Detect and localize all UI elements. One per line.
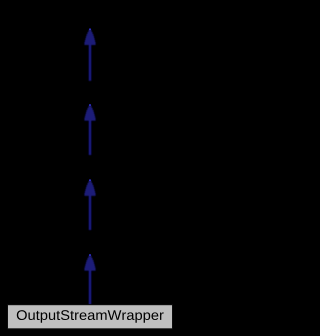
arrow 2 head (stepped): [84, 106, 95, 121]
arrow 4 bright tip: [89, 254, 91, 256]
inheritance arrow 1 (topmost): [84, 29, 95, 81]
wire: arrow 1 stem: [89, 44, 92, 81]
arrow 3 bright tip: [89, 179, 91, 181]
arrow 2 bright tip: [89, 104, 91, 106]
arrow 4 head (stepped): [84, 256, 95, 271]
inheritance arrow 2: [84, 104, 95, 155]
arrow 3 head (stepped): [84, 181, 95, 196]
label OutputStreamWrapper: [17, 310, 164, 323]
wire: arrow 3 stem: [89, 195, 92, 231]
wire: arrow 4 stem: [89, 269, 92, 304]
arrow 1 bright tip: [89, 29, 91, 31]
inheritance arrow 3: [84, 179, 95, 230]
wire: arrow 2 stem: [89, 119, 92, 155]
arrow 1 head (stepped): [84, 30, 95, 45]
node OutputStreamWrapper (current class box): [8, 305, 173, 329]
inheritance arrow 4 (into OutputStreamWrapper): [84, 254, 95, 304]
